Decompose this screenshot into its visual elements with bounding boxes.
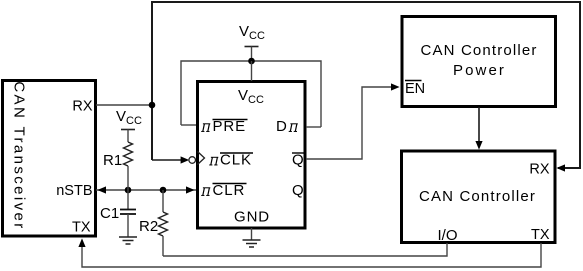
svg-text:D: D [276, 118, 288, 135]
svg-text:RX: RX [72, 99, 92, 115]
svg-text:TX: TX [72, 220, 91, 236]
power symbol VCC (top of flip-flop) [239, 23, 265, 61]
wire: VCC rail above flip-flop [181, 61, 321, 127]
wire: Qbar output to EN of CAN Controller Power [306, 83, 400, 159]
svg-text:Power: Power [453, 62, 506, 79]
node: RX junction [149, 102, 156, 109]
pin label CLR with pulse symbol [201, 182, 246, 199]
CAN Transceiver box U1 [3, 81, 96, 237]
ground (below C1) [119, 237, 137, 244]
pin label VCC (flip-flop) [238, 87, 264, 106]
wire: top loop from RX node to CAN Controller RX [152, 2, 580, 168]
arrowhead into CAN Controller RX [556, 164, 565, 171]
capacitor C1 [120, 190, 136, 237]
svg-text:R2: R2 [139, 218, 158, 235]
ground (below flip-flop) [243, 240, 261, 247]
resistor R1 [124, 142, 133, 190]
svg-text:CLK: CLK [220, 152, 252, 169]
svg-text:CAN Controller: CAN Controller [421, 42, 538, 59]
svg-text:CAN Transceiver: CAN Transceiver [10, 81, 27, 230]
svg-text:PRE: PRE [213, 118, 247, 135]
pin label EN with overline [405, 81, 425, 98]
pin label CLK with pulse symbol [209, 152, 253, 169]
svg-text:GND: GND [234, 209, 270, 226]
label R2 [139, 218, 158, 235]
CAN Controller box U4 [402, 151, 556, 243]
label CAN Controller Power line2 [453, 62, 506, 79]
svg-text:CAN Controller: CAN Controller [419, 188, 536, 205]
svg-text:nSTB: nSTB [56, 183, 92, 199]
pin label TX (controller) [531, 227, 550, 243]
node: VCC rail junction [248, 58, 255, 65]
wire: nSTB net between transceiver and CLR [96, 186, 196, 193]
wire: rail to D pin [306, 126, 321, 128]
power symbol VCC (above R1) [116, 108, 142, 142]
pin label GND (flip-flop) [234, 209, 270, 226]
pin label D with pulse symbol [276, 118, 298, 135]
pin label Qbar [292, 152, 305, 169]
node: R1/C1 junction on nSTB net [125, 187, 132, 194]
inverter bubble at CLK input [189, 157, 196, 164]
pin label I/O [438, 227, 458, 244]
node: R2 junction on nSTB net [160, 187, 167, 194]
svg-text:TX: TX [531, 227, 550, 243]
label C1 [100, 205, 119, 222]
svg-text:C1: C1 [100, 205, 119, 222]
svg-text:R1: R1 [103, 152, 122, 169]
svg-text:CLR: CLR [213, 182, 246, 199]
svg-text:Q: Q [292, 182, 305, 199]
D flip-flop box U2 [198, 82, 306, 229]
pin label PRE with pulse symbol [201, 118, 247, 135]
wire: CAN Controller Power output down to CAN Controller [475, 107, 482, 150]
resistor R2 [159, 190, 168, 256]
wire: CAN Controller TX to transceiver TX [78, 238, 541, 267]
label CAN Transceiver [10, 81, 27, 230]
label CAN Controller [419, 188, 536, 205]
pin label RX (controller) [529, 162, 549, 178]
wire: GND pin stub below flip-flop [251, 228, 253, 240]
wire: R2 to I/O of CAN Controller [163, 243, 447, 256]
svg-text:I/O: I/O [438, 227, 458, 244]
pin label Q [292, 182, 305, 199]
clock edge wedge inside flip-flop [198, 152, 205, 165]
label CAN Controller Power line1 [421, 42, 538, 59]
svg-text:Q: Q [292, 152, 305, 169]
pin label nSTB [56, 183, 92, 199]
wire: RX output of transceiver [96, 104, 152, 106]
svg-text:EN: EN [405, 81, 425, 97]
pin label TX (transceiver) [72, 220, 91, 236]
wire: CLK feed into flip-flop [152, 156, 189, 163]
svg-text:RX: RX [529, 162, 549, 178]
wire: VCC pin stub into flip-flop top [251, 61, 253, 81]
CAN Controller Power box U3 [402, 17, 556, 107]
pin label RX (transceiver) [72, 99, 92, 115]
label R1 [103, 152, 122, 169]
wire: rail to PRE pin [181, 124, 196, 126]
